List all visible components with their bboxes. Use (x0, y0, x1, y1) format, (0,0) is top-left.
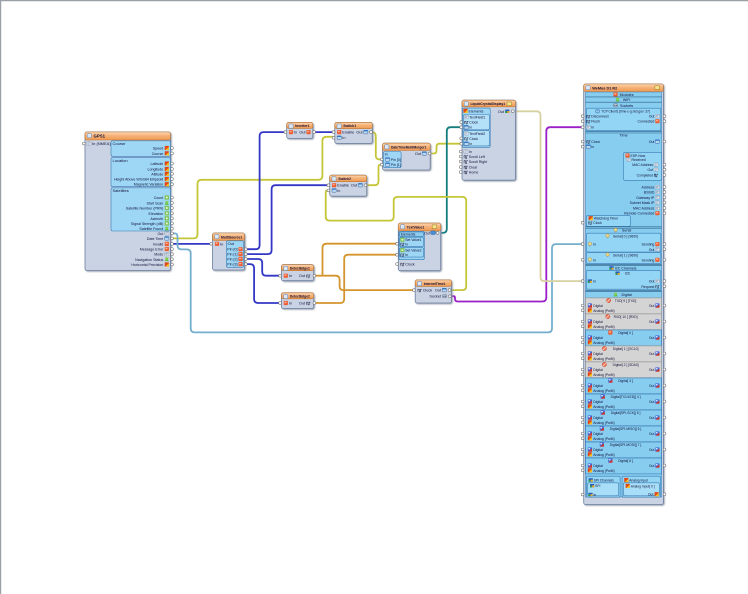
svg-text:Analog (PwM): Analog (PwM) (593, 421, 614, 425)
svg-text:In: In (405, 242, 408, 246)
svg-text:Serial: Serial (622, 229, 632, 233)
svg-text:SPI: SPI (595, 484, 600, 488)
svg-text:Digital: Digital (593, 400, 603, 404)
WeMos digital section Digital[SPI-MOSI][ 7 ] (586, 442, 662, 458)
svg-text:Out: Out (649, 320, 655, 324)
svg-text:In: In (593, 258, 596, 262)
svg-text:Out: Out (649, 248, 655, 252)
svg-text:Digital: Digital (593, 464, 603, 468)
svg-text:Out: Out (228, 241, 235, 246)
svg-text:Date Time: Date Time (147, 237, 163, 241)
block Switch2 (327, 175, 367, 196)
svg-text:Set Value2: Set Value2 (405, 249, 421, 253)
wire InternetTime1.Out to Switch2.In (yellow) (326, 190, 467, 290)
block GPS1 (82, 132, 173, 271)
WeMos digital section Digital[ 0 ] (586, 330, 662, 346)
svg-text:Start Scan: Start Scan (147, 201, 164, 205)
block DateTimeMultiMerger1 (380, 143, 431, 170)
svg-text:Out: Out (498, 110, 505, 114)
svg-text:Satellite Number (PRN): Satellite Number (PRN) (126, 207, 164, 211)
svg-text:Watchdog Timer: Watchdog Timer (594, 217, 619, 221)
canvas left border (0, 0, 2, 594)
WeMos digital section Digital[ 2 ] [SDA0] (586, 362, 662, 378)
svg-text:InternetTime1: InternetTime1 (424, 282, 446, 286)
svg-text:Clock: Clock (469, 121, 478, 125)
wire GPS1.DateTime to Switch1.In (yellow) (172, 137, 335, 239)
svg-text:Out: Out (299, 302, 306, 306)
svg-text:In: In (591, 126, 594, 130)
WeMos digital section Digital[TX1/LED][ 4 ] (586, 394, 662, 410)
svg-text:Digital: Digital (593, 384, 603, 388)
svg-text:GPS1: GPS1 (94, 134, 106, 139)
svg-text:Inverter1: Inverter1 (295, 124, 309, 128)
svg-text:Count: Count (154, 196, 164, 200)
svg-text:Time: Time (620, 133, 628, 137)
svg-text:Pin [1]: Pin [1] (227, 253, 237, 257)
WeMos digital section Digital[SPI-MISO][ 6 ] (586, 426, 662, 442)
svg-text:Completed: Completed (637, 174, 654, 178)
svg-text:Altitude: Altitude (151, 172, 163, 176)
wire TextValue1.Out to LCD TextField1.In (teal) (438, 127, 461, 233)
svg-text:LiquidCrystalDisplay1: LiquidCrystalDisplay1 (471, 102, 506, 106)
svg-text:Switch1: Switch1 (343, 124, 356, 128)
WeMos digital section Digital[ 3 ] (586, 378, 662, 394)
svg-text:Digital[SPI-MISO][ 6 ]: Digital[SPI-MISO][ 6 ] (610, 427, 641, 431)
svg-text:MAC Address: MAC Address (632, 163, 653, 167)
svg-text:Digital: Digital (593, 336, 603, 340)
svg-text:Out: Out (424, 231, 430, 235)
wire DateTimeMultiMerger1.Out to LCD TextField2.In (yellow) (431, 144, 461, 154)
wire DetectEdge1.Out to InternetTime1.Clock (orange) (315, 276, 415, 290)
wire GPS1.Out to WeMos Serial0.In (light blue) (172, 233, 584, 332)
svg-text:Location: Location (113, 158, 128, 163)
svg-text:Out: Out (649, 432, 655, 436)
svg-text:Request: Request (641, 285, 654, 289)
wire Inverter1.Out to Switch1.Enable (navy) (314, 131, 335, 133)
svg-text:Sockets: Sockets (620, 104, 633, 108)
wire GPS1.Invalid to MultiSource1.In (navy) (172, 243, 213, 245)
svg-text:Elevation: Elevation (149, 212, 164, 216)
wire LCD1.Out to WeMos I2C.In (tan) (517, 111, 584, 281)
svg-text:In: In (593, 243, 596, 247)
block WeMos D1 R2 (581, 84, 666, 505)
svg-text:Signal Strength (dB): Signal Strength (dB) (131, 222, 163, 226)
WeMos digital section Digital[ 1 ] [SCL0] (586, 346, 662, 362)
svg-text:Magnetic Variation: Magnetic Variation (134, 183, 164, 187)
svg-text:Out: Out (299, 274, 306, 278)
wire InternetTime1.Socket to WeMos TCPClient.In (purple) (452, 127, 583, 301)
svg-text:MAC Address: MAC Address (633, 207, 655, 211)
svg-text:Digital[ 1 ] [SCL0]: Digital[ 1 ] [SCL0] (613, 347, 639, 351)
svg-text:Digital: Digital (593, 352, 603, 356)
svg-text:Scroll Left: Scroll Left (469, 155, 485, 159)
block InternetTime1 (413, 280, 452, 303)
svg-text:Out: Out (649, 368, 655, 372)
svg-text:Out: Out (649, 280, 655, 284)
svg-text:Out: Out (351, 184, 358, 188)
svg-text:Analog (PwM): Analog (PwM) (593, 453, 614, 457)
svg-text:Out: Out (649, 400, 655, 404)
svg-text:Digital[ 2 ] [SDA0]: Digital[ 2 ] [SDA0] (613, 363, 639, 367)
svg-text:Height Above WGS84 Ellipsoid: Height Above WGS84 Ellipsoid (114, 178, 163, 182)
svg-text:I2C: I2C (625, 272, 631, 276)
svg-text:Enable: Enable (342, 131, 354, 135)
svg-text:TextValue1: TextValue1 (407, 226, 425, 230)
svg-text:Flush: Flush (591, 120, 600, 124)
svg-text:TextField2: TextField2 (469, 132, 485, 136)
svg-text:Remote Connected: Remote Connected (624, 212, 654, 216)
svg-text:Clock: Clock (469, 137, 478, 141)
svg-text:Digital: Digital (593, 432, 603, 436)
svg-text:Home: Home (469, 171, 479, 175)
svg-text:Clock: Clock (593, 221, 602, 225)
svg-text:In: In (405, 253, 408, 257)
svg-text:Analog (PwM): Analog (PwM) (593, 341, 614, 345)
svg-text:In: In (337, 189, 340, 193)
svg-text:Digital[SPI-SCK][ 5 ]: Digital[SPI-SCK][ 5 ] (611, 411, 641, 415)
svg-text:Sending: Sending (642, 258, 655, 262)
WeMos digital section Digital[ 8 ] (586, 458, 662, 474)
svg-text:Sending: Sending (642, 243, 655, 247)
svg-text:Analog (PwM): Analog (PwM) (593, 469, 614, 473)
svg-text:Digital: Digital (593, 448, 603, 452)
svg-text:Elements: Elements (401, 233, 416, 237)
svg-text:Message Error: Message Error (140, 248, 164, 252)
svg-text:Clock: Clock (405, 263, 415, 267)
svg-text:Received: Received (632, 158, 646, 162)
svg-text:In: In (469, 142, 472, 146)
svg-text:Address: Address (642, 186, 655, 190)
wire MultiSource1.Pin2 to DetectEdge1.In (navy) (246, 259, 281, 276)
wire MultiSource1.Pin3 to DetectEdge2.In (navy) (246, 264, 281, 303)
svg-text:Satellite Found: Satellite Found (139, 227, 163, 231)
WeMos Analog Input panel (622, 476, 661, 497)
wire MultiSource1.Pin1 to Switch2.Enable (navy) (246, 185, 329, 254)
svg-text:Out: Out (649, 448, 655, 452)
svg-text:Out: Out (649, 140, 655, 144)
block Inverter1 (284, 122, 316, 138)
svg-text:Out: Out (649, 304, 655, 308)
svg-text:Pin [0]: Pin [0] (391, 158, 401, 162)
wire DetectEdge1.Out branch to TextValue1.In1 (orange) (323, 244, 399, 276)
svg-text:RXD[ 10 ] [RXD]: RXD[ 10 ] [RXD] (614, 315, 638, 319)
wire Switch2.Out to DateTimeMultiMerger1.Pin1 (yellow) (364, 165, 383, 186)
svg-text:Out: Out (435, 289, 442, 293)
svg-text:Out: Out (415, 152, 422, 156)
svg-text:Digital[ 8 ]: Digital[ 8 ] (618, 459, 633, 463)
svg-text:Analog (PwM): Analog (PwM) (593, 389, 614, 393)
wire Switch1.Out to DateTimeMultiMerger1.Pin0 (yellow) (367, 132, 384, 159)
svg-text:Analog (PwM): Analog (PwM) (593, 325, 614, 329)
svg-text:In (NMEA): In (NMEA) (92, 141, 111, 146)
svg-text:Pin [1]: Pin [1] (391, 163, 401, 167)
svg-text:Digital: Digital (593, 320, 603, 324)
svg-text:Analog (PwM): Analog (PwM) (593, 309, 614, 313)
svg-text:MultiSource1: MultiSource1 (221, 235, 242, 239)
svg-text:Digital[ 0 ]: Digital[ 0 ] (618, 331, 633, 335)
svg-text:Out: Out (158, 232, 164, 236)
svg-text:Digital: Digital (593, 304, 603, 308)
block DetectEdge1 (279, 265, 316, 281)
svg-text:Horizontal Precision: Horizontal Precision (131, 263, 163, 267)
svg-text:I2C Channels: I2C Channels (615, 267, 637, 271)
block MultiSource1 (210, 233, 247, 270)
svg-text:In: In (294, 131, 297, 135)
svg-text:In: In (593, 280, 596, 284)
svg-text:In: In (594, 493, 597, 497)
svg-text:SPI Channels: SPI Channels (594, 479, 615, 483)
svg-text:Digital: Digital (593, 416, 603, 420)
svg-text:Out: Out (649, 115, 655, 119)
svg-text:Analog (PwM): Analog (PwM) (593, 405, 614, 409)
svg-text:In: In (289, 302, 292, 306)
svg-text:Analog (PwM): Analog (PwM) (593, 357, 614, 361)
svg-text:Clock: Clock (423, 289, 433, 293)
svg-text:Serial[ 0 ] (9600): Serial[ 0 ] (9600) (613, 234, 638, 238)
svg-text:Out: Out (648, 168, 654, 172)
svg-text:Satellites: Satellites (113, 188, 129, 193)
svg-text:Latitude: Latitude (151, 162, 164, 166)
svg-text:Serial[ 1 ] (9600): Serial[ 1 ] (9600) (613, 253, 638, 257)
block TextValue1 (396, 223, 441, 271)
svg-text:Elements: Elements (469, 109, 484, 113)
svg-text:Longitude: Longitude (148, 168, 164, 172)
svg-text:Analog Input: Analog Input (629, 479, 648, 483)
svg-text:In: In (385, 153, 388, 157)
svg-text:Subnet Mask IP: Subnet Mask IP (630, 201, 655, 205)
svg-text:Out: Out (649, 336, 655, 340)
svg-text:In: In (289, 274, 292, 278)
block LiquidCrystalDisplay1 (459, 100, 515, 180)
svg-text:WeMos D1 R2: WeMos D1 R2 (592, 86, 617, 90)
svg-text:Out: Out (649, 416, 655, 420)
svg-text:Analog (PwM): Analog (PwM) (593, 437, 614, 441)
svg-text:Course: Course (152, 152, 164, 156)
svg-text:Socket: Socket (429, 295, 442, 299)
svg-text:In: In (220, 241, 223, 246)
svg-text:Out: Out (649, 352, 655, 356)
WeMos digital section TXD[ 9 ] [TXD] (586, 298, 662, 314)
svg-text:Speed: Speed (153, 147, 163, 151)
svg-text:Digital[TX1/LED][ 4 ]: Digital[TX1/LED][ 4 ] (611, 395, 641, 399)
svg-text:Digital[ 3 ]: Digital[ 3 ] (618, 379, 633, 383)
svg-text:In: In (591, 145, 594, 149)
svg-text:Out: Out (649, 464, 655, 468)
svg-text:Pin [3]: Pin [3] (227, 263, 237, 267)
svg-text:Disconnect: Disconnect (591, 115, 608, 119)
wire MultiSource1.Pin0 to Inverter1.In (navy) (246, 132, 286, 249)
svg-text:Clear: Clear (469, 166, 478, 170)
svg-text:DateTimeMultiMerger1: DateTimeMultiMerger1 (391, 146, 426, 150)
block DetectEdge2 (279, 293, 316, 309)
svg-text:In: In (469, 150, 472, 154)
svg-text:Analog Input[ 0 ]: Analog Input[ 0 ] (631, 484, 655, 488)
svg-text:Mode: Mode (154, 253, 163, 257)
canvas top border (0, 0, 748, 2)
WeMos digital section RXD[ 10 ] [RXD] (586, 314, 662, 330)
svg-text:Digital: Digital (593, 368, 603, 372)
svg-text:Clock: Clock (591, 140, 600, 144)
svg-text:Out: Out (356, 131, 363, 135)
svg-text:Modules: Modules (620, 93, 634, 97)
WeMos digital section Digital[SPI-SCK][ 5 ] (586, 410, 662, 426)
svg-text:Connected: Connected (637, 120, 654, 124)
svg-text:DetectEdge2: DetectEdge2 (290, 295, 310, 299)
svg-text:Invalid: Invalid (153, 242, 163, 246)
svg-text:Course: Course (113, 141, 127, 146)
svg-text:Switch2: Switch2 (338, 177, 351, 181)
svg-text:Gateway IP: Gateway IP (636, 196, 655, 200)
svg-text:TCP Client1 [time-c-g.nist.gov: TCP Client1 [time-c-g.nist.gov :37] (601, 110, 650, 114)
svg-text:Navigation Status: Navigation Status (135, 258, 163, 262)
svg-text:Enable: Enable (337, 184, 349, 188)
svg-text:WiFi: WiFi (623, 98, 631, 102)
svg-text:TXD[ 9 ] [TXD]: TXD[ 9 ] [TXD] (615, 299, 637, 303)
svg-text:BSSID: BSSID (644, 191, 655, 195)
svg-text:Analog (PwM): Analog (PwM) (593, 373, 614, 377)
svg-text:Out: Out (648, 493, 654, 497)
svg-text:Out: Out (299, 131, 306, 135)
svg-text:In: In (342, 136, 345, 140)
svg-text:In: In (469, 126, 472, 130)
svg-text:TextField1: TextField1 (469, 116, 485, 120)
svg-text:DetectEdge1: DetectEdge1 (290, 266, 310, 270)
svg-text:Digital: Digital (621, 293, 631, 297)
svg-text:Digital[SPI-MOSI][ 7 ]: Digital[SPI-MOSI][ 7 ] (610, 443, 641, 447)
svg-text:Pin [0]: Pin [0] (227, 248, 237, 252)
svg-text:Scroll Right: Scroll Right (469, 160, 487, 164)
svg-text:Out: Out (649, 384, 655, 388)
svg-text:Azimuth: Azimuth (150, 217, 163, 221)
wire DetectEdge2.Out to TextValue1.In2 (orange) (315, 255, 398, 303)
block Switch1 (332, 122, 372, 143)
WeMos SPI panel (587, 476, 621, 497)
svg-text:Pin [2]: Pin [2] (227, 258, 237, 262)
